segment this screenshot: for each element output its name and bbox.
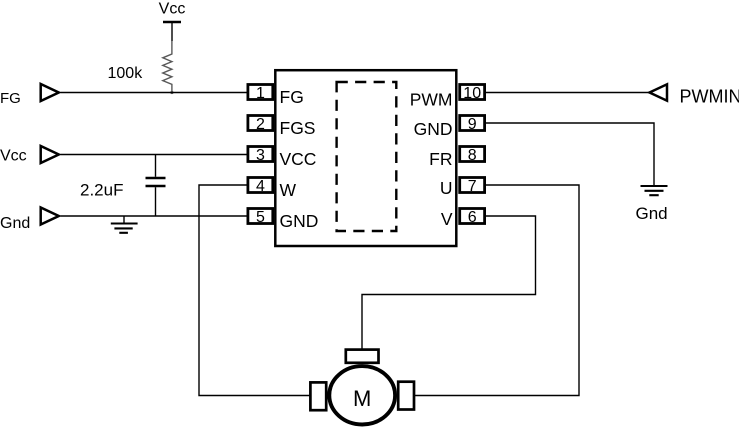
op IC U1 body	[275, 70, 456, 246]
pin 2 box	[248, 116, 273, 134]
svg-text:7: 7	[468, 178, 477, 195]
connector PWMIN (output arrow)	[650, 84, 668, 100]
pin 6 box	[460, 209, 485, 227]
wire Vcc to pin 3	[61, 154, 248, 156]
svg-text:GND: GND	[280, 211, 319, 231]
svg-text:Vcc: Vcc	[0, 148, 27, 165]
svg-text:Gnd: Gnd	[0, 215, 30, 232]
svg-text:5: 5	[256, 209, 265, 226]
svg-text:100k: 100k	[108, 65, 144, 82]
svg-text:PWM: PWM	[410, 90, 453, 110]
svg-text:PWMIN: PWMIN	[680, 86, 739, 106]
svg-text:M: M	[353, 386, 371, 411]
svg-text:Gnd: Gnd	[636, 204, 668, 223]
svg-text:U: U	[440, 178, 453, 198]
pin 4 box	[248, 178, 273, 196]
svg-text:Vcc: Vcc	[159, 1, 186, 18]
pin 7 box	[460, 178, 485, 196]
svg-text:FG: FG	[0, 90, 21, 107]
svg-text:W: W	[280, 180, 297, 200]
connector Gnd (input arrow)	[41, 208, 59, 225]
svg-text:FGS: FGS	[280, 118, 316, 138]
wire pin 9 to ground	[486, 123, 655, 186]
wire pin 7 (U) to motor right terminal	[415, 185, 579, 396]
svg-text:2: 2	[256, 116, 265, 133]
svg-text:3: 3	[256, 147, 265, 164]
svg-text:FG: FG	[280, 87, 304, 107]
connector Vcc (input arrow)	[41, 146, 59, 163]
svg-text:1: 1	[256, 85, 265, 102]
svg-text:2.2uF: 2.2uF	[80, 180, 123, 199]
ground symbol (right)	[641, 186, 668, 195]
motor left terminal	[310, 382, 326, 410]
svg-text:6: 6	[468, 209, 477, 226]
wire pin 6 (V) to motor top terminal	[362, 216, 536, 349]
svg-text:FR: FR	[429, 149, 452, 169]
pin 3 box	[248, 147, 273, 165]
pin 5 box	[248, 209, 273, 227]
motor M1 body	[329, 366, 395, 424]
svg-text:10: 10	[463, 85, 481, 102]
wire pin 4 (W) to motor left terminal	[199, 185, 310, 396]
pin 10 box	[460, 85, 485, 103]
capacitor C1 2.2uF	[146, 155, 166, 217]
pin 8 box	[460, 147, 485, 165]
svg-text:4: 4	[256, 178, 265, 195]
wire FG to pin 1	[61, 92, 248, 94]
svg-text:VCC: VCC	[280, 149, 317, 169]
pin 9 box	[460, 116, 485, 134]
svg-text:V: V	[441, 209, 453, 229]
svg-text:9: 9	[468, 116, 477, 133]
ground symbol (left)	[111, 216, 138, 233]
motor top terminal	[346, 350, 379, 363]
dashed inner block	[337, 82, 397, 231]
wire Gnd to pin 5	[61, 215, 248, 217]
power symbol Vcc (top)	[159, 1, 186, 42]
connector FG (input arrow)	[41, 84, 59, 101]
svg-text:8: 8	[468, 147, 477, 164]
pin 1 box	[248, 85, 273, 103]
resistor R1 100k	[163, 41, 174, 94]
svg-text:GND: GND	[414, 119, 453, 139]
motor right terminal	[398, 382, 414, 410]
wire pin 10 to PWMIN	[486, 92, 651, 94]
